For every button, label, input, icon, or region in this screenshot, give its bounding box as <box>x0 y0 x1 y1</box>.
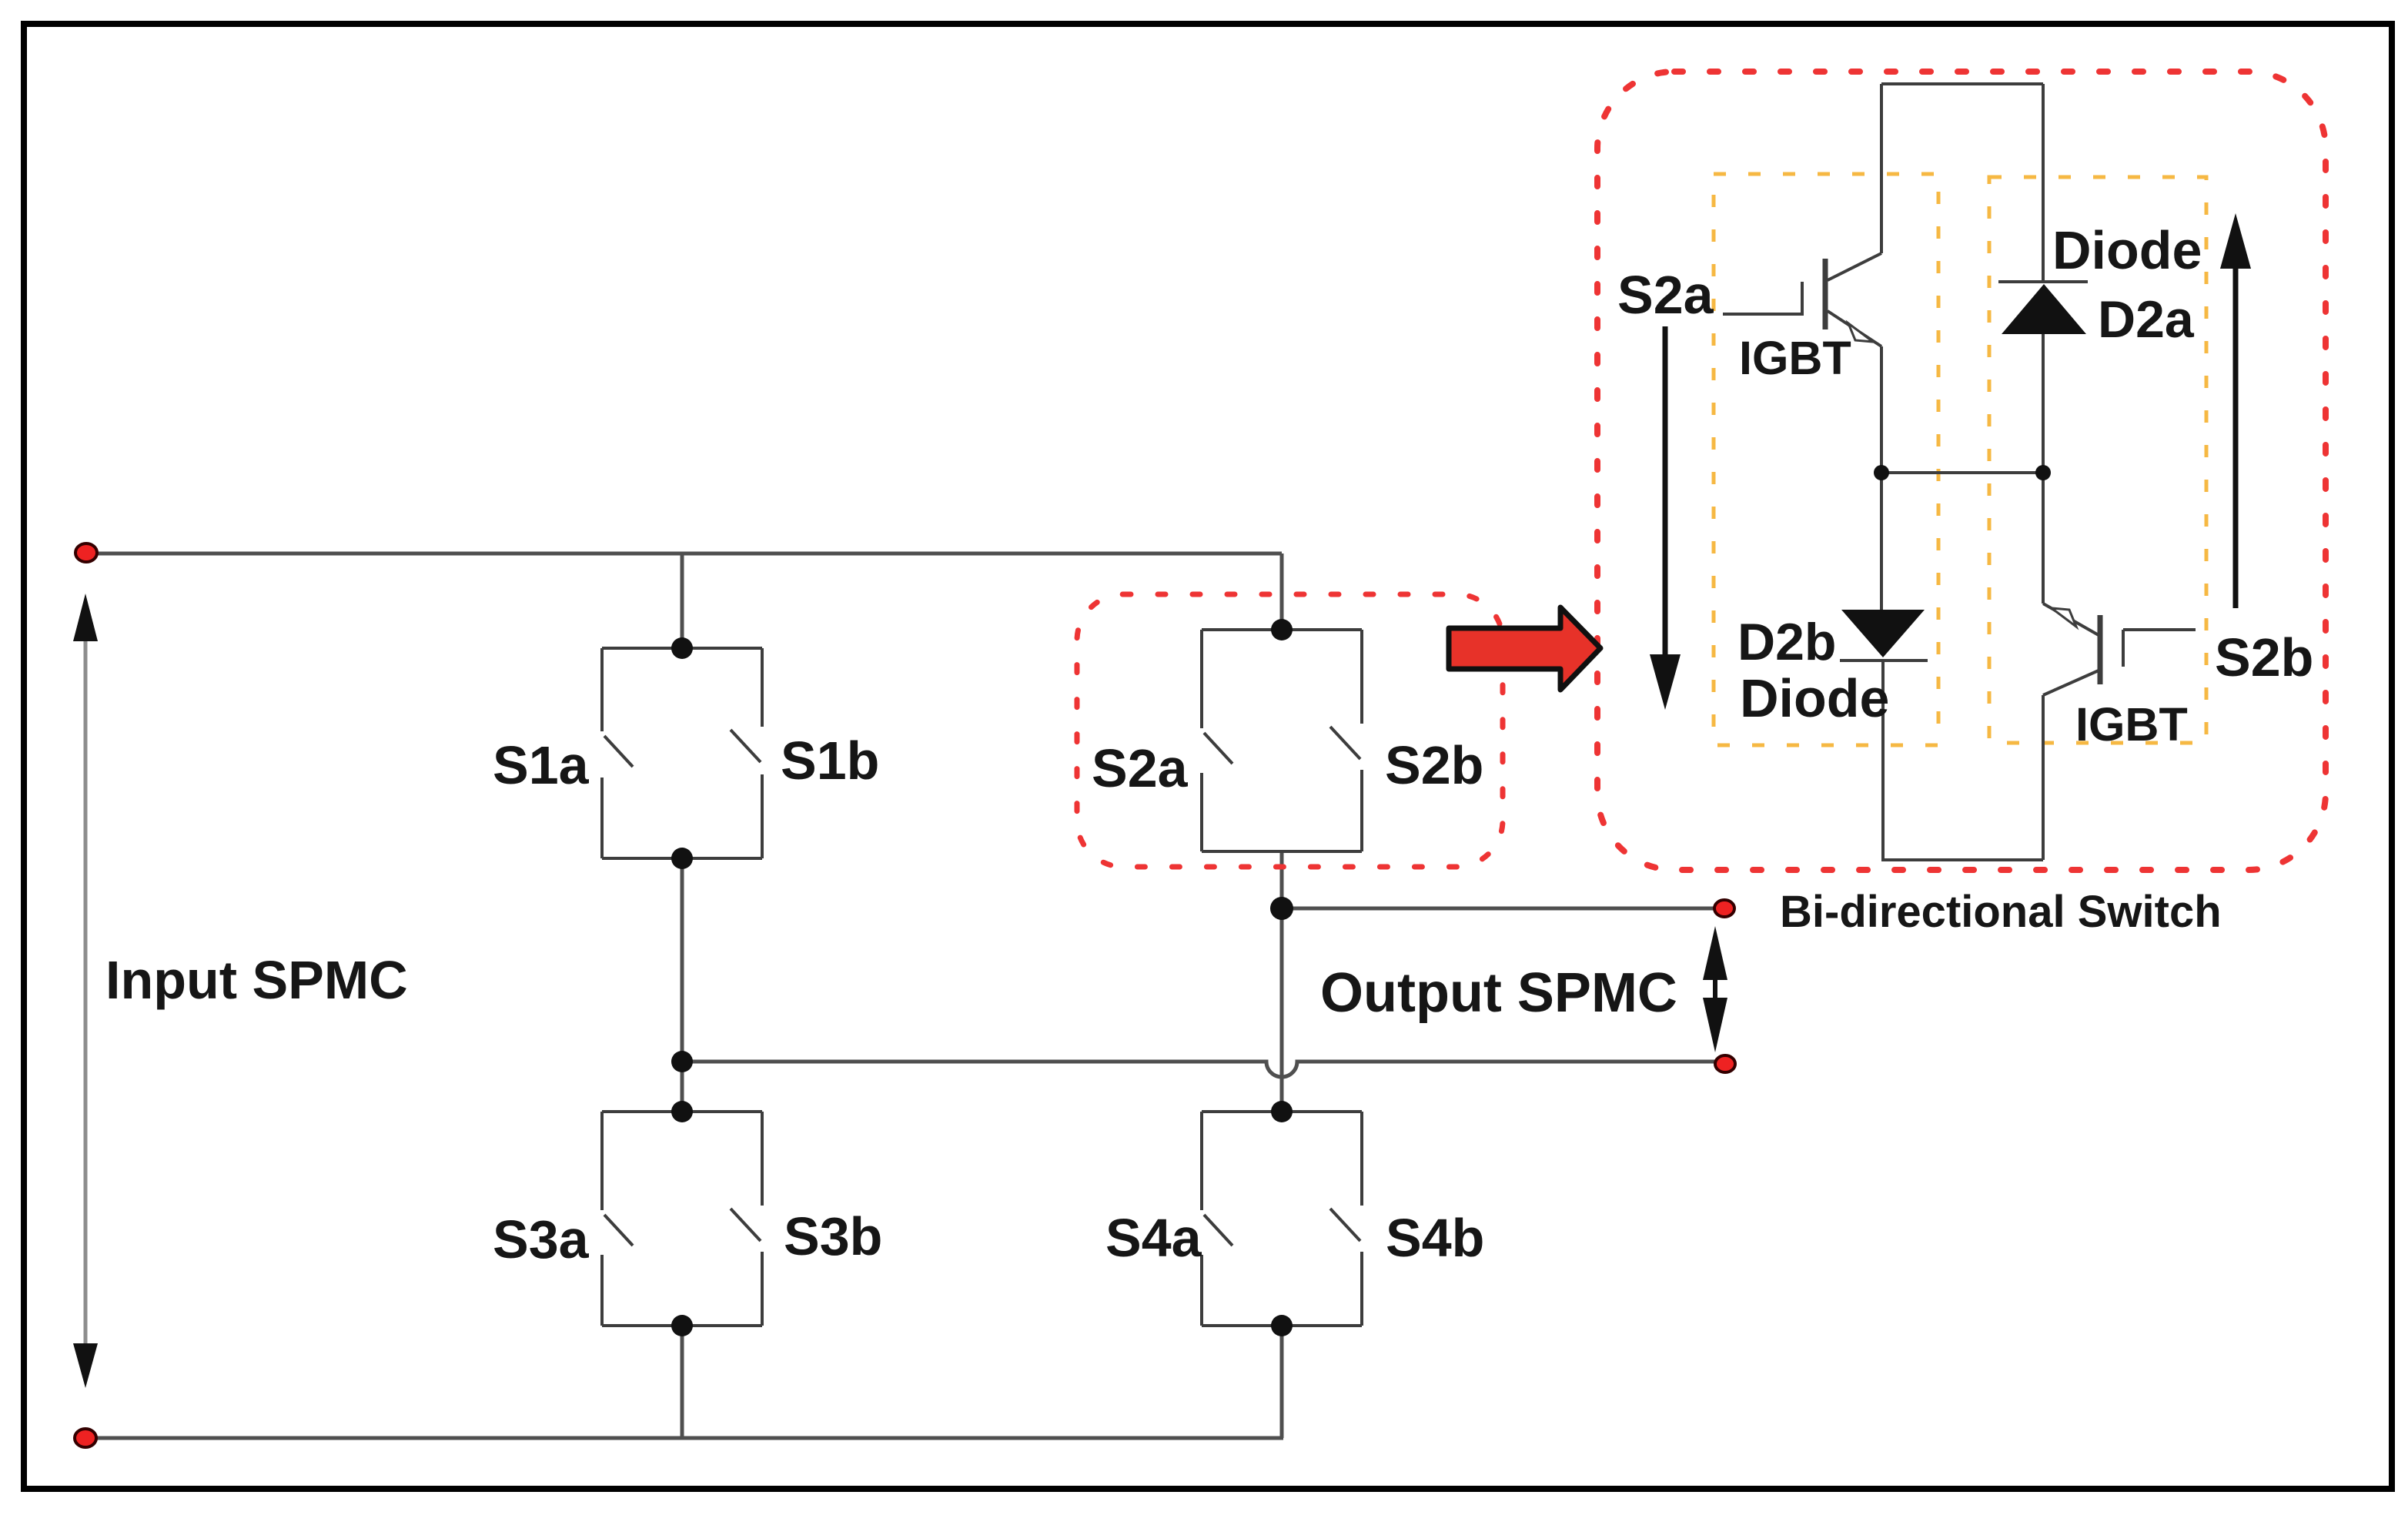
svg-text:Diode: Diode <box>2052 220 2202 280</box>
switch pair S3 (S3a,S3b) <box>602 1110 762 1113</box>
svg-text:Diode: Diode <box>1740 668 1889 728</box>
svg-text:S2b: S2b <box>1385 735 1483 795</box>
node: S2 top junction <box>1271 619 1293 640</box>
node: middle connector left <box>1874 465 1889 480</box>
svg-text:S4a: S4a <box>1105 1208 1202 1268</box>
transistor: IGBT (S2b) <box>2043 604 2196 695</box>
wire: mid horizontal with hop over S4 column <box>682 1062 1725 1077</box>
node: S4 top junction <box>1271 1101 1293 1122</box>
svg-text:S1a: S1a <box>493 735 590 795</box>
dimension arrow: Output SPMC span <box>1703 926 1727 1052</box>
wire: detail loop bottom <box>1881 858 2043 861</box>
svg-text:IGBT: IGBT <box>1739 332 1851 384</box>
node: S4 bottom junction <box>1271 1315 1293 1336</box>
wire: upper output lead <box>1282 907 1724 911</box>
switch pair S1 (S1a,S1b) <box>602 647 762 650</box>
svg-text:S2b: S2b <box>2215 627 2313 687</box>
transistor: IGBT (S2a) <box>1723 253 1881 346</box>
wire: middle cross connector <box>1881 471 2043 474</box>
wire: S3 bottom to bottom rail <box>681 1326 684 1438</box>
wire: S1 bottom to mid node <box>681 858 684 1062</box>
svg-text:S2a: S2a <box>1092 738 1189 798</box>
callout: orange dashed box (D2a+S2b IGBT) <box>1989 177 2206 743</box>
wire: top input rail <box>86 552 1282 556</box>
svg-text:IGBT: IGBT <box>2075 698 2188 751</box>
wire: detail loop top <box>1881 82 2043 85</box>
callout: dashed box around S2 pair <box>1077 594 1503 867</box>
wire: S3 drop to bottom rail <box>681 1062 684 1112</box>
node: middle connector right <box>2035 465 2051 480</box>
wire: S2 drop from top rail <box>1280 553 1284 630</box>
diode D2a <box>1998 282 2088 334</box>
svg-text:Bi-directional Switch: Bi-directional Switch <box>1780 887 2222 937</box>
wire: bottom input rail <box>86 1436 1283 1440</box>
node: output upper junction <box>1270 897 1293 920</box>
switch pair S4 (S4a,S4b) <box>1202 1110 1362 1113</box>
wire: right rail mid (D2a to node, node to S2b IGBT) <box>2042 334 2045 604</box>
flow arrow: S2b direction (up) <box>2220 213 2251 608</box>
svg-text:S3b: S3b <box>784 1206 882 1266</box>
svg-text:Input SPMC: Input SPMC <box>105 950 408 1010</box>
callout: orange dashed box (S2a IGBT+D2b) <box>1714 174 1938 745</box>
red arrow: zoom callout <box>1449 607 1600 690</box>
node: S1 top junction <box>671 637 693 659</box>
wire: S2 bottom through output node to S4 top <box>1280 851 1284 1112</box>
wire: left rail top (collector S2a IGBT) <box>1880 84 1883 253</box>
wire: S1 drop from top rail <box>681 553 684 648</box>
wire: left rail mid (emitter to D2b) <box>1880 346 1883 610</box>
wire: left rail bottom (D2b to loop) <box>1881 661 1885 860</box>
flow arrow: S2a direction (down) <box>1650 326 1681 710</box>
node: S3 bottom junction <box>671 1315 693 1336</box>
terminal: output - <box>1715 1055 1735 1072</box>
dimension arrow: Input SPMC span <box>73 594 98 1388</box>
switch pair S2 (S2a,S2b) <box>1202 628 1362 631</box>
wire: right rail bottom (S2b IGBT to loop) <box>2042 695 2045 860</box>
svg-text:D2b: D2b <box>1737 613 1836 671</box>
svg-text:S2a: S2a <box>1617 265 1714 325</box>
svg-text:S3a: S3a <box>493 1209 590 1269</box>
terminal: output + <box>1714 900 1734 917</box>
svg-text:D2a: D2a <box>2098 290 2195 349</box>
diode D2b <box>1840 610 1928 661</box>
node: S1 bottom junction <box>671 848 693 869</box>
wire: S4 bottom to bottom rail <box>1280 1326 1284 1438</box>
svg-text:Output SPMC: Output SPMC <box>1320 962 1677 1024</box>
node: S3 top junction <box>671 1101 693 1122</box>
terminal: input + <box>75 543 97 562</box>
terminal: input - <box>75 1429 96 1447</box>
svg-text:S4b: S4b <box>1386 1208 1484 1268</box>
svg-text:S1b: S1b <box>781 731 879 791</box>
callout: dashed box around bi-directional switch detail <box>1597 72 2326 870</box>
wire: right rail top (to D2a) <box>2042 84 2045 282</box>
node: mid-rail junction <box>671 1051 693 1072</box>
